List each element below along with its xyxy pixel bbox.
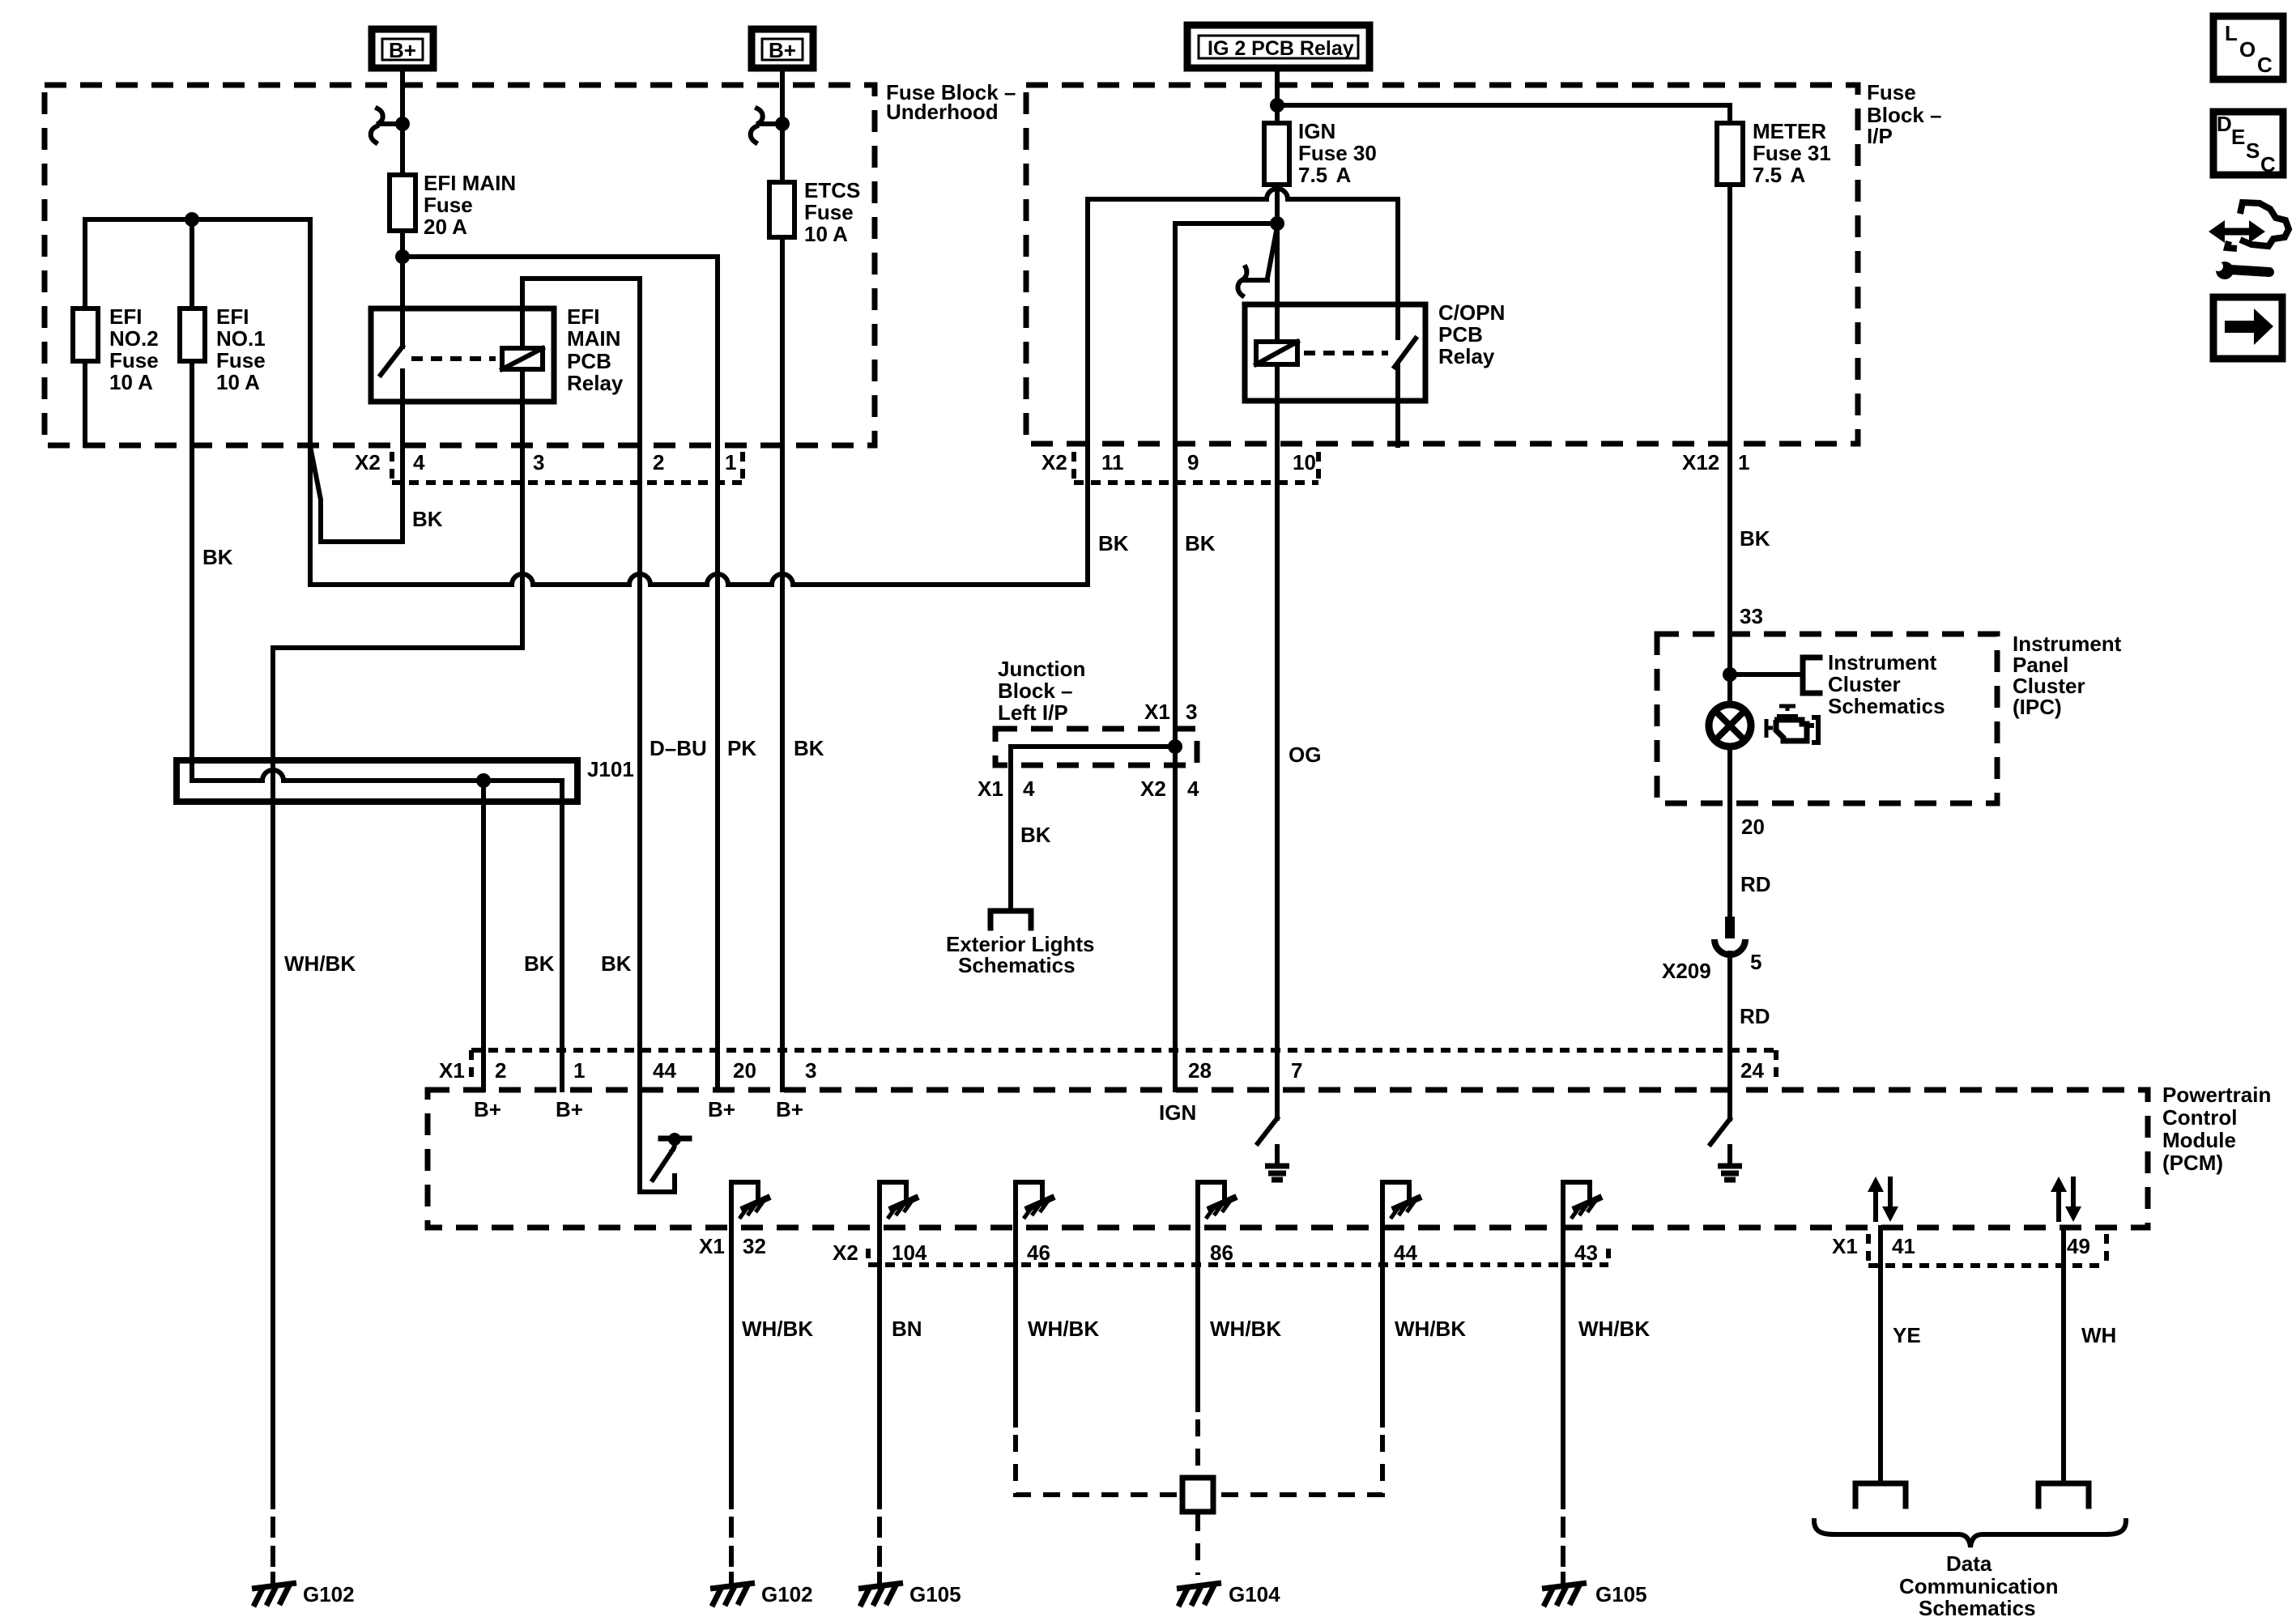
dashed wire splice to G104 [1195,1514,1200,1575]
wire IG2 branch to METER fuse [1277,105,1730,123]
svg-text:BK: BK [1185,531,1216,555]
svg-text:B+: B+ [556,1097,583,1121]
svg-text:D–BU: D–BU [650,736,707,760]
wire coil bottom through pin 3 to WH/BK corner [273,369,522,648]
wire pin9 branch [1175,223,1277,1090]
junction bus J101 box [177,757,634,802]
svg-text:Control: Control [2162,1105,2237,1130]
wire B+2 to ETCS fuse [780,73,785,182]
svg-text:WH: WH [2081,1323,2116,1347]
svg-text:20 A: 20 A [424,215,467,239]
svg-text:Fuse: Fuse [804,200,854,224]
PCM pin24 internal switch [1710,1119,1730,1144]
breaker symbol under B+2 [751,109,782,143]
svg-text:46: 46 [1027,1240,1050,1265]
svg-text:10 A: 10 A [109,370,153,394]
svg-text:WH/BK: WH/BK [1395,1317,1466,1341]
relay EFI MAIN coil [502,348,543,369]
svg-text:G104: G104 [1229,1582,1280,1606]
svg-text:IGN: IGN [1159,1100,1196,1125]
svg-text:D: D [2217,112,2232,136]
svg-text:E: E [2231,125,2245,149]
wire pin11 riser [1085,199,1090,585]
svg-text:1: 1 [573,1058,585,1083]
svg-text:Instrument: Instrument [1828,650,1937,674]
svg-text:32: 32 [743,1234,766,1258]
svg-text:Schematics: Schematics [958,953,1076,977]
wire WH pin49 [2061,1228,2066,1480]
svg-text:IG 2 PCB Relay: IG 2 PCB Relay [1208,37,1354,60]
PCM dashed box [428,1083,2271,1228]
PCM pin104 ground hook [880,1182,918,1507]
svg-text:10 A: 10 A [804,222,848,246]
label data communication schematics [1899,1551,2058,1617]
off-page fork pin49 [2038,1483,2089,1506]
wire PK pin1 to PCM 20 [715,257,720,1090]
pin X1 32 labels [699,1234,766,1258]
svg-text:B+: B+ [389,38,416,62]
svg-text:Junction: Junction [998,657,1085,681]
svg-text:BK: BK [412,507,443,531]
svg-text:WH/BK: WH/BK [1028,1317,1099,1341]
icon arrow box [2213,297,2282,359]
svg-text:Schematics: Schematics [1828,694,1945,718]
svg-text:(IPC): (IPC) [2013,695,2062,719]
svg-text:X2: X2 [833,1240,858,1265]
svg-text:Left I/P: Left I/P [998,700,1068,725]
PCM pin43 ground hook [1563,1182,1602,1507]
PCM pin44X2 ground hook [1382,1182,1421,1425]
off-page fork instrument cluster [1803,657,1820,693]
svg-text:S: S [2246,138,2260,163]
svg-text:BN: BN [892,1317,922,1341]
svg-text:EFI MAIN: EFI MAIN [424,171,516,195]
wire IGN fuse down [1275,185,1280,342]
svg-text:G105: G105 [909,1582,961,1606]
svg-text:3: 3 [1186,700,1197,724]
wire WH/BK to G102 [270,648,275,1507]
svg-text:X2: X2 [1042,450,1067,474]
wire B+1 to EFI MAIN fuse [400,73,405,175]
svg-text:Data: Data [1946,1551,1992,1576]
svg-text:Block –: Block – [998,679,1073,703]
svg-text:44: 44 [1394,1240,1417,1265]
brace data communication [1814,1521,2126,1547]
svg-text:WH/BK: WH/BK [1578,1317,1650,1341]
J101 internal bus with hop [192,770,562,1090]
wire ETCS fuse to PCM pin 3 (BK) [780,237,785,1090]
wire coil top to pin 44 branch [520,279,525,348]
fuse EFI NO.1 10 A [180,304,266,394]
B+ terminal 2 [752,29,813,68]
svg-text:7.5 A: 7.5 A [1298,163,1352,187]
data arrows pin49 [2051,1177,2081,1222]
relay C/OPN coil [1256,342,1297,364]
relay EFI MAIN PCB box [371,304,624,402]
dashed wire pin32 to G102 [729,1519,734,1585]
svg-text:3: 3 [533,450,544,474]
svg-text:104: 104 [892,1240,927,1265]
svg-text:RD: RD [1740,872,1771,896]
wire EFI NO.1 to J101 bus [190,361,194,781]
B+ terminal 1 [372,29,433,68]
wire EFI fuses feed bus [85,217,310,222]
svg-text:Fuse 30: Fuse 30 [1298,141,1377,165]
junction block pin X1 3 [1144,700,1197,724]
svg-text:L: L [2225,21,2238,45]
connector X209 [1662,917,1761,983]
relay EFI MAIN switch arm [381,347,403,402]
svg-text:2: 2 [653,450,664,474]
svg-text:11: 11 [1101,450,1124,474]
svg-text:MAIN: MAIN [567,326,620,351]
ground pin7 [1265,1147,1289,1180]
svg-text:33: 33 [1740,604,1763,628]
relay C/OPN PCB box [1245,300,1505,401]
node under B+2 [775,117,790,131]
svg-text:Relay: Relay [1438,344,1495,368]
svg-text:BK: BK [202,545,233,569]
dashed wire pin46 to splice [1016,1435,1179,1495]
breaker symbol under B+1 [371,109,403,143]
label IG 2 PCB Relay box [1187,25,1370,68]
node IG2 branch [1270,98,1284,113]
svg-text:1: 1 [1738,450,1749,474]
svg-text:X1: X1 [699,1234,725,1258]
engine icon MIL [1766,706,1818,743]
dashed wire pin43 to G105 [1561,1519,1565,1585]
off-page fork to exterior lights [990,911,1031,928]
svg-text:G102: G102 [303,1582,355,1606]
relay C/OPN dashed link [1304,351,1388,355]
ground G102 left [252,1582,355,1606]
junction block pin X1 4 [978,777,1035,801]
svg-text:Fuse: Fuse [109,348,159,372]
svg-text:20: 20 [1741,815,1765,839]
wire EFI MAIN fuse to relay fixed contact [400,231,405,347]
svg-text:WH/BK: WH/BK [284,951,356,976]
svg-text:41: 41 [1892,1234,1915,1258]
svg-text:BK: BK [1020,823,1051,847]
svg-text:10: 10 [1293,450,1316,474]
node IGN fuse output [1270,216,1284,231]
wire relay output loop to pin4 [310,371,403,542]
svg-text:NO.1: NO.1 [216,326,266,351]
svg-text:Fuse: Fuse [1867,80,1916,104]
node J101 splice [476,773,491,788]
junction block pin X2 4 [1140,777,1199,801]
svg-text:C: C [2260,152,2276,177]
svg-text:(PCM): (PCM) [2162,1151,2223,1175]
svg-text:43: 43 [1574,1240,1598,1265]
svg-text:IGN: IGN [1298,119,1335,143]
PCM pin32 ground hook [731,1182,770,1507]
wire branch to cluster fork [1730,672,1803,677]
svg-text:G102: G102 [761,1582,813,1606]
svg-text:Relay: Relay [567,371,624,395]
svg-text:24: 24 [1740,1058,1764,1083]
svg-text:WH/BK: WH/BK [1210,1317,1281,1341]
svg-text:5: 5 [1750,950,1761,974]
dashed wire pin86 to splice [1195,1419,1200,1475]
pin row X2 PCM bottom [833,1240,1608,1265]
svg-text:PK: PK [727,736,756,760]
svg-text:X1: X1 [439,1058,465,1083]
svg-text:X1: X1 [978,777,1003,801]
svg-text:EFI: EFI [109,304,142,329]
wire fuse output to pin 20 branch [403,254,718,259]
PCM pin46 ground hook [1016,1182,1054,1425]
data arrows pin41 [1868,1177,1898,1222]
label exterior lights schematics [946,932,1094,977]
label instrument cluster schematics [1828,650,1945,718]
icon car with wrench [2209,202,2289,279]
junction block internal wire [1011,747,1175,908]
pin X12 1 labels [1682,450,1749,474]
svg-text:NO.2: NO.2 [109,326,159,351]
bus BK with hops [310,574,1088,585]
fuse block I/P dashed box [1026,80,1942,444]
svg-text:WH/BK: WH/BK [742,1317,813,1341]
wire EFI NO.2 stub [83,219,87,309]
svg-text:Underhood: Underhood [886,100,999,124]
junction block left I/P dashed box [995,657,1197,765]
svg-text:BK: BK [1098,531,1129,555]
svg-text:BK: BK [794,736,824,760]
icon DESC box [2213,112,2283,177]
svg-text:Powertrain: Powertrain [2162,1083,2271,1107]
IG2 relay contact arm [1237,227,1277,296]
dashed wire pin104 to G105 [877,1519,882,1585]
wire OG coil to PCM pin 7 [1275,364,1280,1118]
svg-text:G105: G105 [1595,1582,1647,1606]
wire D-BU pin2 to PCM 44 [637,279,642,1090]
fuse EFI MAIN 20 A [390,171,516,239]
wire IG2 relay to IGN fuse [1275,68,1280,123]
fuse EFI NO.2 10 A [73,304,159,394]
svg-text:4: 4 [1023,777,1035,801]
wire X209 to PCM pin 24 [1727,953,1732,1119]
svg-text:B+: B+ [474,1097,501,1121]
svg-text:YE: YE [1893,1323,1921,1347]
svg-text:7: 7 [1291,1058,1302,1083]
svg-text:B+: B+ [776,1097,803,1121]
PCM pin44 internal switch [640,1090,689,1192]
svg-text:EFI: EFI [567,304,599,329]
wire EFI NO.2 below fuse [83,361,87,445]
wire relay feed riser x383 [308,219,313,585]
svg-text:PCB: PCB [567,349,611,373]
wire J101 to PCM pin 2 [481,781,486,1090]
svg-text:O: O [2239,37,2256,62]
svg-text:C/OPN: C/OPN [1438,300,1505,325]
svg-text:BK: BK [524,951,555,976]
dashed wire pin44 to splice [1216,1435,1382,1495]
svg-text:44: 44 [653,1058,676,1083]
ground G104 [1177,1582,1280,1606]
fuse METER Fuse 31 7.5 A [1717,119,1831,187]
fuse block underhood dashed box [45,80,1016,445]
svg-text:Cluster: Cluster [1828,672,1901,696]
svg-text:B+: B+ [769,38,796,62]
svg-text:RD: RD [1740,1004,1770,1028]
PCM pin86 ground hook [1198,1182,1237,1410]
svg-text:Fuse: Fuse [216,348,266,372]
node IPC branch [1723,667,1737,682]
relay EFI MAIN dashed link [411,356,496,361]
svg-text:ETCS: ETCS [804,178,860,202]
pin row X2 right fuse block [1042,450,1318,483]
svg-text:Communication: Communication [1899,1574,2058,1598]
svg-text:28: 28 [1188,1058,1212,1083]
ground G105 right [1542,1582,1647,1606]
svg-text:Fuse: Fuse [424,193,473,217]
svg-text:PCB: PCB [1438,322,1483,347]
svg-text:4: 4 [1187,777,1199,801]
ground G105 left [858,1582,961,1606]
svg-text:20: 20 [733,1058,756,1083]
node junction block [1168,739,1182,754]
node EFI MAIN fuse output [395,249,410,264]
icon LOC box [2213,16,2283,79]
pin row X1 PCM top [439,1050,1776,1083]
svg-text:EFI: EFI [216,304,249,329]
svg-text:9: 9 [1187,450,1199,474]
svg-text:X1: X1 [1832,1234,1858,1258]
svg-text:OG: OG [1289,743,1321,767]
svg-text:7.5 A: 7.5 A [1753,163,1806,187]
svg-text:C: C [2257,53,2273,77]
svg-text:Schematics: Schematics [1919,1596,2036,1617]
svg-text:4: 4 [413,450,425,474]
indicator lamp [1709,704,1751,747]
svg-text:B+: B+ [708,1097,735,1121]
svg-text:Fuse 31: Fuse 31 [1753,141,1831,165]
svg-text:X12: X12 [1682,450,1719,474]
svg-text:J101: J101 [587,757,634,781]
off-page fork pin41 [1855,1483,1906,1506]
fuse ETCS 10 A [769,178,860,246]
splice box [1182,1478,1213,1512]
relay C/OPN switch [1395,199,1416,445]
svg-text:2: 2 [495,1058,506,1083]
pin row X2 left fuse block [355,450,743,483]
ground G102 mid [710,1582,813,1606]
dashed wire WH/BK to G102 left [270,1519,275,1585]
svg-text:49: 49 [2067,1234,2090,1258]
node under B+1 [395,117,410,131]
svg-text:3: 3 [805,1058,816,1083]
svg-text:X2: X2 [1140,777,1166,801]
wire YE pin41 [1878,1228,1883,1480]
svg-text:BK: BK [601,951,632,976]
horizontal C/OPN feed with hop [1088,189,1398,199]
svg-text:I/P: I/P [1867,124,1893,148]
svg-text:10 A: 10 A [216,370,260,394]
wire METER fuse to lamp [1727,185,1732,704]
fuse IGN Fuse 30 7.5 A [1264,119,1377,187]
svg-text:Module: Module [2162,1128,2236,1152]
svg-text:X2: X2 [355,450,381,474]
svg-text:X1: X1 [1144,700,1170,724]
svg-text:METER: METER [1753,119,1826,143]
wire EFI NO.1 stub [190,219,194,309]
ground pin24 [1718,1147,1742,1180]
instrument panel cluster dashed box [1657,632,2122,803]
node EFI NO.1 top [185,212,199,227]
svg-text:X209: X209 [1662,959,1711,983]
svg-text:1: 1 [725,450,736,474]
PCM pin7 internal switch [1258,1118,1277,1143]
pin row X1 data [1832,1234,2106,1266]
wire lamp to X209 [1727,747,1732,917]
svg-text:86: 86 [1210,1240,1233,1265]
svg-text:BK: BK [1740,526,1770,551]
